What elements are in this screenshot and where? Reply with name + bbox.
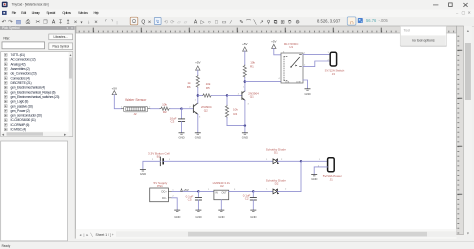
svg-text:U2: U2	[220, 184, 224, 188]
svg-text:gen_semiconductor (20): gen_semiconductor (20)	[11, 114, 42, 118]
svg-text:✕: ✕	[74, 19, 78, 24]
svg-text:Tool: Tool	[404, 28, 411, 32]
power +5V P5	[181, 188, 189, 192]
svg-text:⌒: ⌒	[246, 19, 251, 25]
svg-text:PS1: PS1	[157, 184, 163, 188]
wire	[244, 51, 246, 65]
ground	[250, 210, 256, 219]
svg-text:AC connectors (12): AC connectors (12)	[11, 58, 36, 62]
svg-text:cle_Connectors (23): cle_Connectors (23)	[11, 72, 37, 76]
svg-text:gen_Electromechanical_Relays (: gen_Electromechanical_Relays (6)	[11, 90, 56, 94]
svg-text:J3: J3	[332, 72, 336, 76]
ground	[178, 133, 184, 140]
svg-text:Place Symbol: Place Symbol	[52, 45, 69, 49]
svg-text:Libraries...: Libraries...	[53, 35, 68, 39]
wire DC- to gnd	[172, 198, 177, 210]
wire U2 gnd	[220, 200, 222, 210]
wire battery to D1	[163, 160, 273, 162]
svg-text:□: □	[215, 20, 218, 25]
wire battery to gnd	[143, 161, 160, 169]
svg-text:Analog (42): Analog (42)	[11, 62, 26, 66]
ground	[174, 210, 180, 219]
wire	[170, 108, 181, 110]
svg-text:↶: ↶	[2, 18, 7, 25]
v scrollbar	[464, 26, 472, 235]
svg-text:▲: ▲	[69, 53, 72, 57]
wire to J1	[301, 160, 328, 162]
svg-text:↥: ↥	[66, 19, 71, 25]
ground	[218, 210, 224, 219]
ground	[304, 89, 310, 96]
svg-text:Pick Symbol: Pick Symbol	[2, 26, 20, 30]
node R1 collector	[244, 80, 246, 82]
svg-text:C3: C3	[170, 119, 174, 123]
svg-text:↧: ↧	[58, 19, 63, 25]
diode D1 schottky	[266, 147, 287, 163]
svg-text:DC+: DC+	[162, 190, 168, 194]
wire	[198, 190, 214, 192]
svg-text:J2: J2	[133, 112, 137, 116]
svg-text:GND: GND	[140, 172, 146, 176]
ground	[311, 175, 317, 182]
svg-text:GND: GND	[250, 215, 256, 219]
svg-text:IC-CMOS4000 (11): IC-CMOS4000 (11)	[11, 118, 36, 122]
power +5V P1	[112, 87, 117, 95]
svg-text:↯: ↯	[156, 19, 160, 24]
svg-text:▢: ▢	[462, 10, 466, 15]
relay U1	[278, 42, 306, 83]
svg-text:GND: GND	[195, 135, 201, 139]
node base Q2	[180, 108, 182, 110]
svg-text:gen_Electromechanical (4): gen_Electromechanical (4)	[11, 86, 45, 90]
ground	[242, 133, 248, 140]
svg-text:▷: ▷	[201, 19, 205, 25]
svg-text:+5V: +5V	[242, 42, 247, 46]
svg-text:gen_Electromechanical_switches: gen_Electromechanical_switches (23)	[11, 95, 60, 99]
svg-text:DC-: DC-	[162, 196, 167, 200]
svg-text:D1: D1	[274, 150, 278, 154]
svg-text:⌝: ⌝	[111, 19, 113, 25]
svg-text:GND: GND	[174, 215, 180, 219]
svg-text:U1: U1	[289, 45, 293, 49]
svg-text:D2: D2	[275, 181, 279, 185]
svg-text:GND: GND	[195, 215, 201, 219]
svg-text:Options: Options	[62, 11, 71, 15]
svg-text:R4: R4	[233, 112, 237, 116]
svg-text:Help: Help	[94, 11, 99, 15]
svg-text:+5V: +5V	[271, 40, 276, 44]
svg-text:Q: Q	[141, 19, 145, 25]
ground	[195, 133, 201, 140]
svg-text:J1: J1	[330, 178, 334, 182]
node D1/D2/J1	[300, 160, 302, 162]
svg-text:+5V: +5V	[195, 61, 200, 65]
svg-text:Special: Special	[46, 11, 56, 15]
tree	[1, 52, 73, 137]
svg-text:10k: 10k	[162, 103, 167, 107]
status bar	[0, 242, 474, 249]
wire relay COM to switch	[303, 61, 330, 67]
svg-text:gen_passive (16): gen_passive (16)	[11, 104, 33, 108]
svg-text:▱: ▱	[177, 19, 181, 24]
wire	[114, 95, 121, 109]
svg-text:✎: ✎	[239, 19, 243, 25]
power +5V P3	[242, 42, 247, 51]
svg-text:▲: ▲	[466, 29, 470, 33]
wire	[182, 108, 194, 110]
svg-text:File: File	[12, 11, 17, 15]
wire	[278, 160, 302, 162]
node C5	[197, 190, 199, 192]
capacitor C3	[170, 109, 185, 133]
svg-text:C5: C5	[188, 198, 192, 202]
svg-text:⚙: ⚙	[295, 19, 300, 25]
diode D2 schottky	[266, 178, 287, 194]
wire	[227, 95, 242, 97]
resistor R6	[187, 75, 200, 95]
wire	[229, 190, 254, 192]
resistor R5	[198, 82, 227, 97]
svg-text:R5: R5	[206, 86, 210, 90]
resistor R1	[243, 61, 255, 82]
wire DC+	[172, 190, 199, 192]
top ruler	[76, 26, 457, 33]
svg-text:Assemblies (2): Assemblies (2)	[11, 67, 30, 71]
svg-text:Filter:: Filter:	[3, 37, 10, 41]
svg-text:OUT: OUT	[222, 192, 228, 195]
svg-text:⎙: ⎙	[26, 19, 31, 25]
node R6/R5/Q2	[197, 94, 199, 96]
resistor R4	[225, 96, 238, 126]
node C2	[252, 190, 254, 192]
wire	[245, 81, 281, 83]
wire Q1 collector	[244, 82, 246, 91]
svg-text:C2: C2	[245, 196, 249, 200]
svg-text:Ready: Ready	[2, 244, 11, 248]
svg-text:◂: ◂	[80, 233, 82, 237]
svg-text:74TTL (61): 74TTL (61)	[11, 53, 25, 57]
transistor Q1 2N3904	[238, 87, 259, 106]
svg-text:|: |	[84, 233, 85, 237]
svg-text:GND: GND	[304, 92, 310, 96]
tree scrollbars	[69, 52, 73, 136]
svg-text:IN: IN	[215, 192, 218, 195]
svg-text:↗: ↗	[259, 20, 263, 25]
right ruler	[457, 26, 464, 235]
regulator U2	[208, 181, 236, 200]
svg-text:COM: COM	[296, 81, 301, 83]
wire Q2 emitter	[197, 114, 199, 132]
svg-text:Water Sensor: Water Sensor	[125, 98, 147, 102]
node emitter Q1	[244, 124, 246, 126]
svg-text:Window: Window	[78, 11, 88, 15]
svg-text:gen_Logic (8): gen_Logic (8)	[11, 100, 29, 104]
wire riser D2 row to D1 row	[300, 161, 302, 191]
svg-text:▼: ▼	[466, 232, 470, 236]
preview	[1, 141, 68, 241]
svg-text:⊞: ⊞	[280, 19, 284, 25]
svg-text:R1: R1	[250, 64, 254, 68]
connector J3 switch	[325, 52, 345, 76]
svg-text:▸: ▸	[87, 233, 89, 237]
svg-text:Q2: Q2	[204, 108, 208, 112]
wire	[274, 48, 281, 54]
svg-text:56.76: 56.76	[366, 18, 377, 23]
svg-text:Library: Library	[32, 11, 40, 15]
transistor Q2 2N3904	[189, 100, 212, 119]
svg-text:○: ○	[208, 20, 211, 25]
svg-text:✕: ✕	[148, 19, 152, 24]
wire	[151, 108, 160, 110]
svg-text:✕: ✕	[94, 19, 98, 24]
svg-text:▱: ▱	[184, 19, 188, 24]
svg-text:Connectors (4): Connectors (4)	[11, 76, 30, 80]
wire D2 to riser	[278, 190, 302, 192]
svg-text:⚲: ⚲	[267, 19, 271, 25]
svg-text:no tool options: no tool options	[412, 38, 435, 42]
power +5V P2	[195, 61, 200, 71]
toolbar	[0, 17, 474, 26]
svg-text:Q1: Q1	[250, 95, 254, 99]
svg-text:8.526, 3.937: 8.526, 3.937	[317, 18, 341, 23]
wire Q1 emitter	[244, 100, 246, 125]
svg-text:↓: ↓	[88, 19, 91, 25]
svg-text:❐: ❐	[43, 19, 48, 25]
svg-text:▾: ▾	[80, 19, 82, 24]
connector J2 Water Sensor	[121, 98, 151, 116]
svg-text:Sheet 1: Sheet 1	[96, 233, 108, 237]
svg-text:↷: ↷	[8, 18, 13, 25]
wire relay NO to switch	[303, 53, 330, 55]
svg-text:▤: ▤	[16, 19, 22, 25]
svg-text:gen_Power (2): gen_Power (2)	[11, 109, 30, 113]
wire J1 pin2 to gnd	[314, 167, 327, 174]
power supply PS1	[150, 181, 175, 202]
svg-text:/ ] +: / ] +	[108, 233, 114, 237]
capacitor C2	[243, 191, 257, 210]
svg-text:GND: GND	[242, 135, 248, 139]
ground	[140, 170, 146, 177]
svg-text:GND: GND	[178, 135, 184, 139]
svg-text:IC-MISC (4): IC-MISC (4)	[11, 128, 27, 132]
svg-text:∩: ∩	[349, 19, 353, 26]
svg-text:GND: GND	[311, 177, 317, 181]
svg-text:⎊: ⎊	[288, 19, 292, 25]
node base Q1	[226, 94, 228, 96]
svg-text:Edit: Edit	[21, 11, 26, 15]
svg-text:+5V: +5V	[183, 188, 188, 192]
ground	[195, 210, 201, 219]
capacitor C5	[186, 191, 202, 210]
svg-text:⧉: ⧉	[274, 19, 278, 25]
wire	[244, 126, 246, 133]
svg-text:R2: R2	[163, 110, 167, 114]
svg-text:-.005: -.005	[379, 18, 389, 23]
svg-text:▭: ▭	[222, 20, 227, 25]
tool options floating panel	[400, 26, 446, 46]
wire	[227, 125, 245, 127]
svg-text:R6: R6	[187, 85, 191, 89]
wire relay gnd	[303, 80, 308, 89]
power +5V P4	[271, 40, 276, 49]
battery B1	[148, 151, 171, 165]
svg-text:✕: ✕	[468, 10, 471, 15]
connector J1 power	[318, 158, 342, 182]
svg-text:IC-OPAMP (6): IC-OPAMP (6)	[11, 123, 30, 127]
wire	[253, 190, 272, 192]
svg-text:GND: GND	[218, 215, 224, 219]
svg-text:Ω: Ω	[132, 19, 136, 25]
sheet tab row	[76, 229, 457, 239]
wire Q2 collector	[197, 96, 199, 104]
resistor R2	[160, 103, 170, 114]
svg-text:|: |	[116, 19, 117, 24]
wire	[197, 70, 199, 75]
svg-text:TinyCad - [WaterSensor.dsn]: TinyCad - [WaterSensor.dsn]	[12, 2, 49, 6]
svg-text:✂: ✂	[36, 19, 41, 25]
svg-text:COIL: COIL	[285, 81, 289, 83]
svg-text:DISCRETE (21): DISCRETE (21)	[11, 81, 32, 85]
